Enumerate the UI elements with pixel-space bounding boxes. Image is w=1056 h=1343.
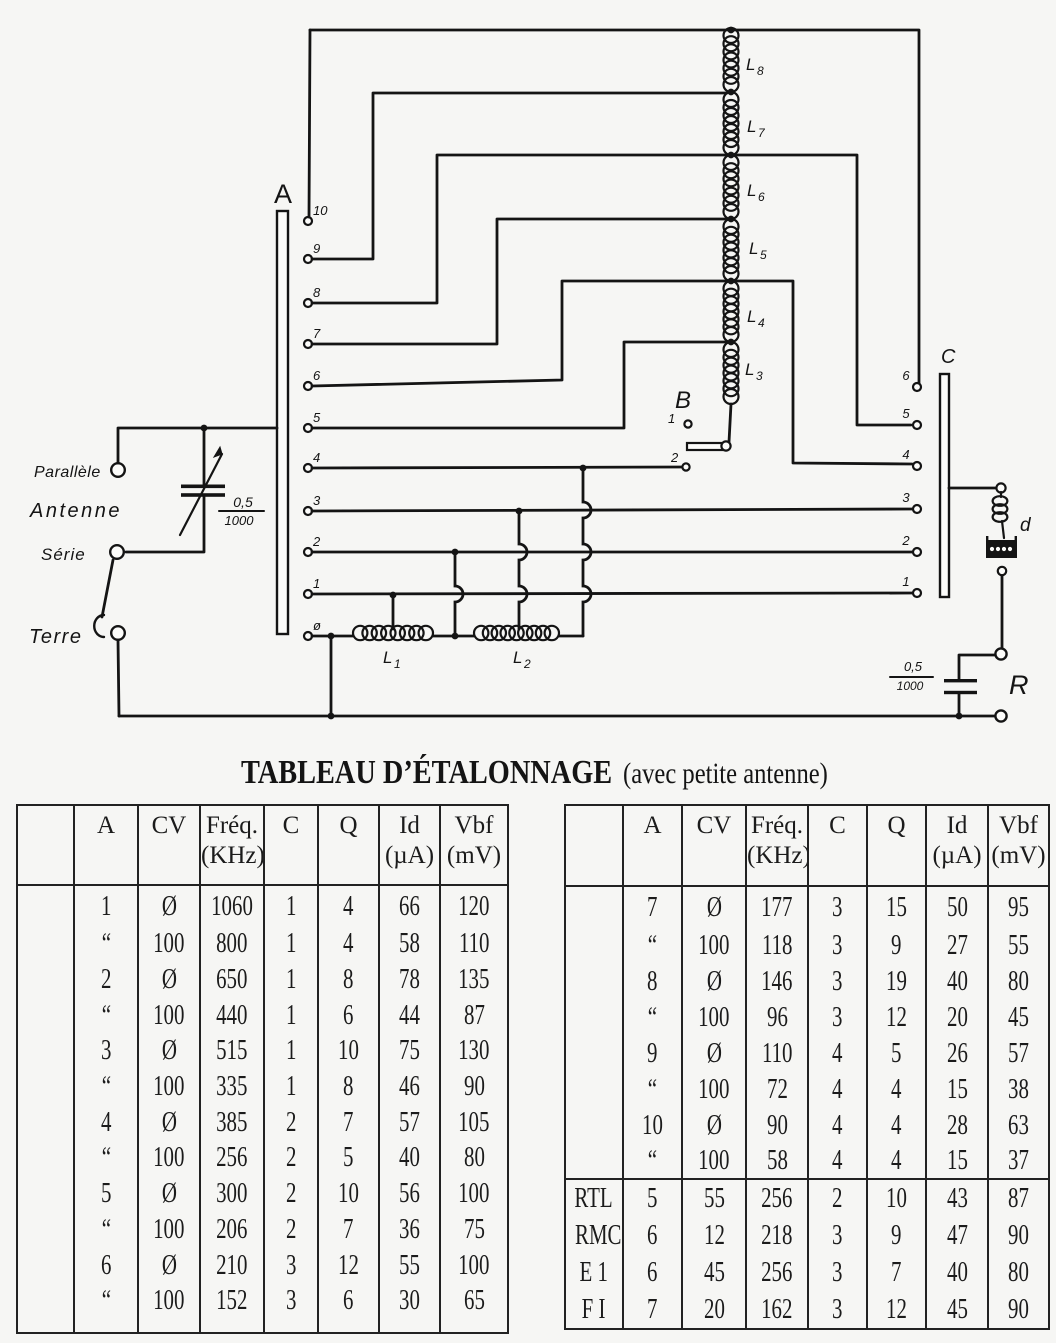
svg-text:ø: ø [313, 618, 321, 633]
terminal R hot [995, 648, 1006, 659]
svg-text:Parallèle: Parallèle [34, 464, 101, 481]
wire A3 to C3 [312, 509, 912, 511]
wire A7 to L5/L6 tap [312, 219, 727, 344]
switch A contact 2 [304, 548, 312, 556]
switch A contact 1 [304, 590, 312, 598]
switch B contact 1 [684, 420, 691, 427]
switch C contact 2 [913, 548, 921, 556]
bottom rail wire [119, 715, 995, 718]
variable capacitor CV plates [181, 485, 225, 489]
svg-text:1: 1 [902, 574, 909, 589]
switch A contact 6 [304, 382, 312, 390]
svg-text:L: L [745, 360, 754, 379]
svg-text:8: 8 [313, 285, 321, 300]
svg-text:Terre: Terre [29, 626, 82, 648]
svg-text:5: 5 [313, 410, 321, 425]
riser L2 end [583, 468, 591, 636]
switch A contact 7 [304, 340, 312, 348]
switch A contact 5 [304, 424, 312, 432]
wire Serie to CV bottom [126, 497, 204, 552]
svg-text:6: 6 [758, 190, 765, 204]
svg-text:4: 4 [758, 316, 765, 330]
svg-text:L: L [747, 181, 756, 200]
svg-text:7: 7 [758, 126, 766, 140]
junction riser L1/L2 [452, 549, 459, 556]
svg-text:Antenne: Antenne [29, 500, 122, 522]
svg-text:1000: 1000 [897, 679, 924, 693]
wire A10 to top rail [309, 30, 310, 217]
junction L5/L4 [728, 278, 735, 285]
wire A4 to B2 [312, 467, 682, 468]
junction L6/L5 [728, 216, 735, 223]
wire L6/L7 tap to C5 [735, 155, 911, 425]
svg-text:1: 1 [668, 411, 675, 426]
riser L1/L2 [455, 552, 463, 633]
switch A contact zero [304, 632, 312, 640]
svg-text:2: 2 [901, 533, 910, 548]
wire C bar to detector [949, 487, 996, 490]
switch A contact 3 [304, 507, 312, 515]
svg-text:d: d [1020, 515, 1032, 536]
junction bottom right [956, 713, 963, 720]
junction L7/L6 [728, 152, 735, 159]
title [241, 754, 612, 792]
svg-text:5: 5 [760, 248, 767, 262]
wire A0 to L1 [312, 635, 353, 638]
svg-text:1: 1 [313, 576, 320, 591]
junction node CV top [201, 425, 208, 432]
svg-text:4: 4 [313, 450, 320, 465]
variable capacitor CV arrow [180, 454, 222, 535]
terminal R ground [995, 710, 1006, 721]
svg-text:L: L [747, 117, 756, 136]
calibration table right [564, 804, 1050, 1330]
switch B contact 2 [682, 463, 689, 470]
svg-text:2: 2 [523, 657, 531, 671]
coil L6 [724, 155, 739, 170]
coil L2 [474, 626, 488, 640]
svg-text:6: 6 [902, 368, 910, 383]
svg-text:B: B [675, 387, 691, 414]
switch arm Serie-Terre [102, 560, 113, 617]
switch A contact 8 [304, 299, 312, 307]
junction A0 [328, 633, 335, 640]
svg-text:1: 1 [394, 657, 401, 671]
terminal detector top [996, 483, 1005, 492]
wire L4/L5 tap to C4 [735, 281, 912, 464]
svg-text:L: L [513, 648, 522, 667]
switch B arm [687, 443, 723, 450]
svg-text:3: 3 [313, 493, 321, 508]
junction L1/L2 [452, 633, 459, 640]
wire Terre down [118, 640, 119, 716]
switch A contact 4 [304, 464, 312, 472]
switch C contact 4 [913, 462, 921, 470]
terminal Terre [111, 626, 125, 640]
svg-text:L: L [747, 307, 756, 326]
svg-text:6: 6 [313, 368, 321, 383]
svg-text:0,5: 0,5 [233, 494, 253, 510]
wire CV top [203, 428, 206, 485]
svg-text:3: 3 [756, 369, 763, 383]
svg-text:3: 3 [902, 490, 910, 505]
coil L3 [724, 342, 739, 357]
switch C contact 1 [913, 589, 921, 597]
switch C contact 5 [913, 421, 921, 429]
detector node circle [998, 567, 1006, 575]
svg-text:Série: Série [41, 545, 86, 564]
junction L8 top [728, 27, 735, 34]
coil L1 [353, 626, 367, 640]
wire detector down [1001, 576, 1004, 648]
svg-text:5: 5 [902, 406, 910, 421]
svg-text:R: R [1009, 670, 1029, 700]
svg-text:A: A [274, 179, 292, 209]
svg-text:0,5: 0,5 [904, 659, 923, 674]
coil L5 [724, 219, 739, 234]
junction L8/L7 [728, 89, 735, 96]
switch A contact 10 [304, 217, 312, 225]
wire A8 to L6/L7 tap [312, 155, 727, 303]
wire A6 to L4/L5 tap [312, 281, 727, 386]
svg-text:L: L [749, 239, 758, 258]
svg-text:2: 2 [312, 534, 321, 549]
svg-text:9: 9 [313, 241, 320, 256]
switch C contact 6 [913, 383, 921, 391]
riser L1 tap [392, 595, 395, 629]
calibration table left [16, 804, 509, 1334]
wire L3 to B arm [729, 404, 731, 442]
svg-text:L: L [746, 55, 755, 74]
coil L8 [724, 28, 739, 43]
wire A0 junction down [330, 636, 333, 716]
coil L7 [724, 92, 739, 107]
riser L2 tap [519, 511, 527, 629]
terminal Serie [110, 545, 124, 559]
coil L4 [724, 281, 739, 296]
junction riser L2 end [580, 465, 587, 472]
capacitor 0,5/1000 (R) plates [944, 679, 977, 682]
svg-text:L: L [383, 648, 392, 667]
switch C contact 3 [913, 505, 921, 513]
terminal Parallele [111, 463, 125, 477]
wire A9 to L7/L8 tap [312, 93, 727, 259]
junction riser L1 tap [390, 592, 397, 599]
wire A1 to C1 [312, 593, 912, 594]
junction bottom left [328, 713, 335, 720]
diode d box [986, 540, 1017, 558]
wafer switch A bar [277, 211, 288, 634]
wire top rail to C6 [310, 30, 919, 383]
junction L4/L3 [728, 339, 735, 346]
svg-text:4: 4 [902, 447, 909, 462]
wire to capacitor R [959, 655, 995, 679]
junction riser L2 tap [516, 508, 523, 515]
svg-text:8: 8 [757, 64, 764, 78]
wire A2 to C2 [312, 551, 912, 554]
svg-text:10: 10 [313, 203, 328, 218]
wire capacitor to rail [958, 694, 961, 716]
wafer switch C bar [940, 374, 949, 597]
wire A5 to L3/L4 tap [312, 342, 727, 428]
svg-text:7: 7 [313, 326, 321, 341]
svg-text:2: 2 [670, 450, 679, 465]
svg-text:C: C [941, 346, 956, 368]
wire Parallele to node CV [118, 428, 277, 463]
svg-text:1000: 1000 [225, 513, 255, 528]
switch A contact 9 [304, 255, 312, 263]
detector coil [993, 496, 1008, 506]
